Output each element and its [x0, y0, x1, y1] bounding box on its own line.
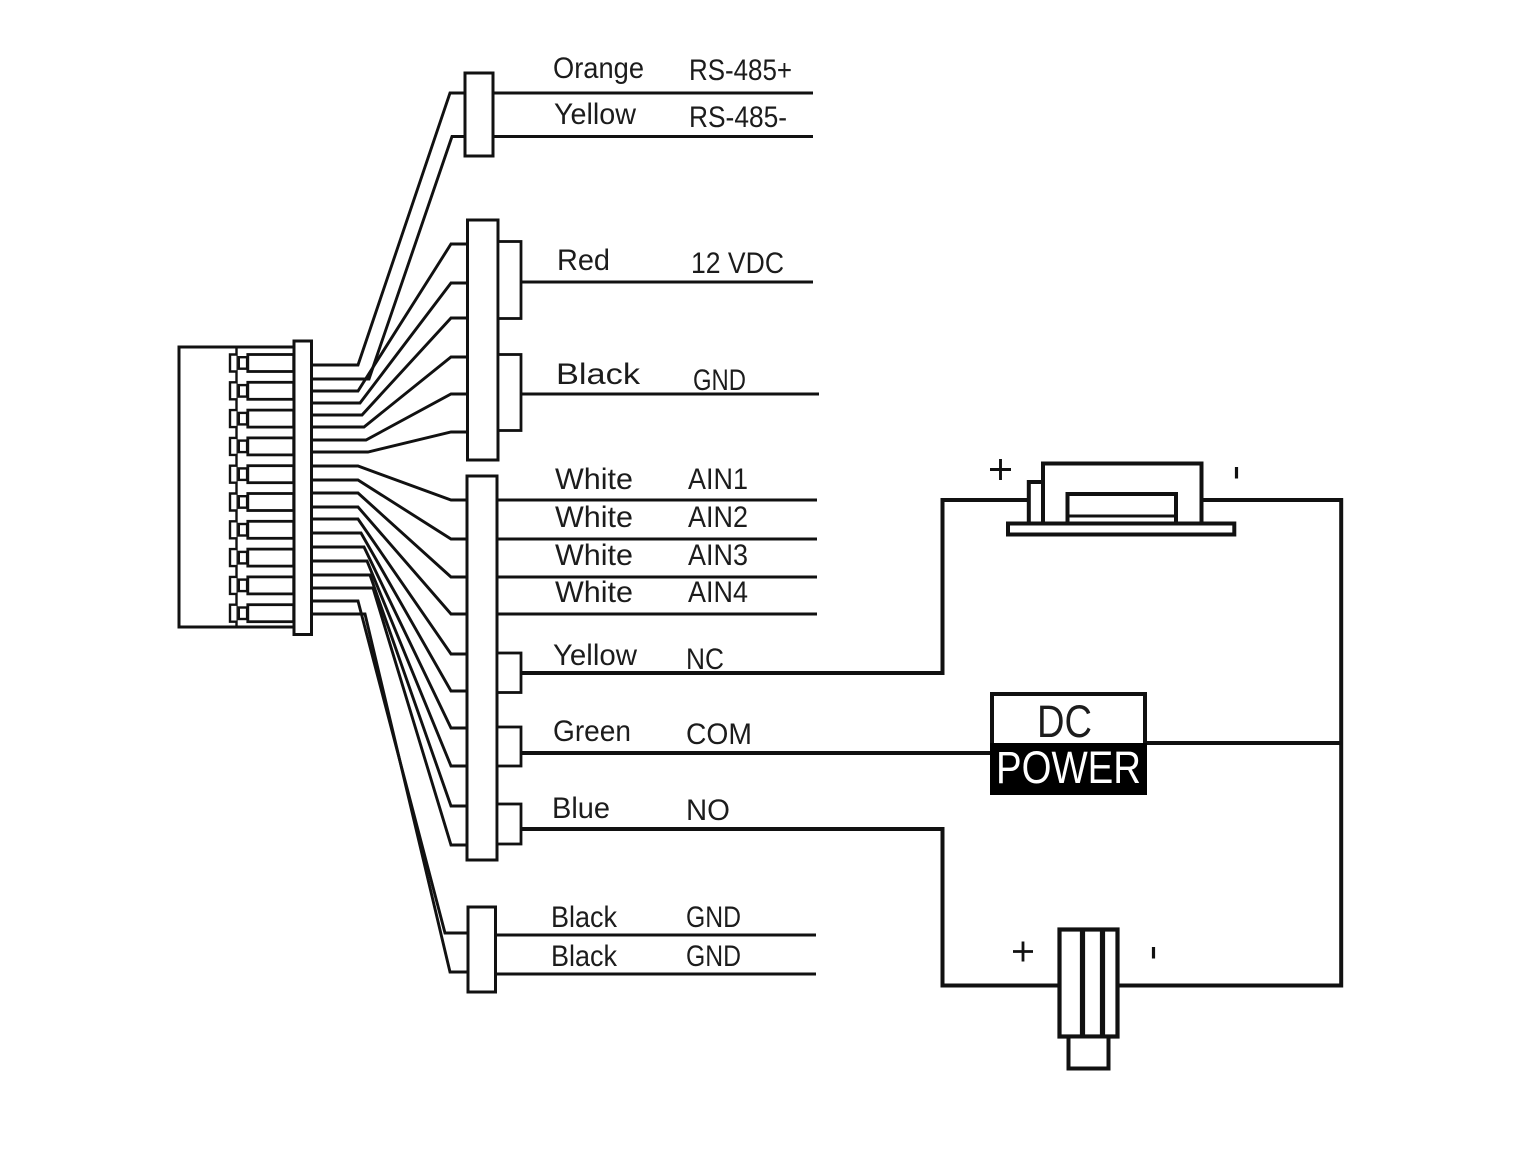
svg-text:12 VDC: 12 VDC	[691, 247, 784, 280]
DC power black half	[990, 743, 1147, 795]
wire connector pin fan to NC bundle a	[311, 519, 467, 654]
svg-text:COM: COM	[686, 718, 752, 751]
connector pin blade 9	[248, 577, 294, 594]
connector tooth pin 9	[230, 577, 237, 594]
cable sheath bar ground	[468, 907, 496, 992]
connector tooth pin 6	[230, 494, 237, 511]
connector contact square pin 3	[239, 413, 247, 425]
wire connector pin fan to 12VDC bundle c	[311, 318, 468, 415]
svg-text:AIN2: AIN2	[688, 501, 748, 534]
connector tooth pin 1	[230, 355, 237, 372]
electric lock inner latch line	[1068, 515, 1177, 518]
electric lock inner block	[1068, 494, 1177, 524]
svg-text:White: White	[555, 501, 633, 534]
wire connector pin fan to NO bundle b	[311, 588, 467, 845]
connector J1 comb edge	[235, 347, 237, 627]
connector J1 body	[179, 347, 294, 627]
plug terminal green COM	[497, 727, 521, 766]
svg-text:AIN1: AIN1	[688, 463, 748, 496]
connector tooth pin 7	[230, 521, 237, 538]
wire NC to lock positive	[521, 500, 1030, 673]
wire connector pin fan to 12VDC bundle b (red)	[311, 283, 468, 403]
connector contact square pin 4	[239, 441, 247, 453]
plug terminal yellow NC	[497, 653, 521, 693]
connector contact square pin 6	[239, 496, 247, 508]
svg-text:White: White	[555, 463, 633, 496]
connector tooth pin 5	[230, 466, 237, 483]
connector pin blade 5	[248, 466, 294, 483]
wire connector pin fan to COM bundle a	[311, 547, 467, 728]
cable sheath bar RS-485	[465, 73, 493, 156]
connector contact square pin 2	[239, 385, 247, 397]
svg-text:RS-485-: RS-485-	[689, 101, 787, 134]
connector pin blade 8	[248, 549, 294, 566]
connector tooth pin 2	[230, 382, 237, 399]
svg-text:Yellow: Yellow	[554, 98, 636, 131]
connector tooth pin 10	[230, 605, 237, 622]
svg-text:White: White	[555, 539, 633, 572]
svg-text:Green: Green	[553, 715, 631, 748]
wire 12 VDC	[521, 281, 813, 284]
cable sheath bar power	[468, 220, 499, 460]
wire AIN1	[497, 499, 817, 502]
wire NO to exit button positive	[521, 829, 1060, 986]
svg-text:NO: NO	[686, 794, 730, 827]
wire GND	[521, 393, 819, 396]
wire RS-485-	[493, 135, 813, 138]
wire connector pin fan to COM bundle b	[311, 561, 467, 766]
connector pin blade 4	[248, 438, 294, 455]
wire connector pin fan to AIN4 (white)	[311, 507, 467, 614]
wire DC power right to trunk	[1145, 741, 1341, 745]
connector contact square pin 10	[239, 608, 247, 620]
electric lock minus tick	[1235, 467, 1238, 479]
wire connector pin fan to AIN2 (white)	[311, 480, 467, 539]
wire connector pin fan to GND (black) upper	[311, 601, 468, 933]
connector contact square pin 7	[239, 524, 247, 536]
svg-text:POWER: POWER	[996, 742, 1141, 793]
wire connector pin fan to NC bundle b	[311, 533, 467, 691]
wire COM to DC power	[521, 751, 992, 755]
exit button inner line right	[1100, 930, 1105, 1037]
svg-text:Black: Black	[551, 901, 618, 934]
wire AIN3	[497, 576, 817, 579]
plug terminal black GND	[498, 355, 521, 431]
svg-text:GND: GND	[693, 364, 746, 397]
svg-text:Orange: Orange	[553, 52, 644, 85]
connector tooth pin 8	[230, 549, 237, 566]
connector pin blade 2	[248, 382, 294, 399]
connector pin blade 10	[248, 605, 294, 622]
wire connector pin fan to 12VDC bundle a	[311, 244, 468, 391]
svg-text:RS-485+: RS-485+	[689, 54, 792, 87]
connector tooth pin 4	[230, 438, 237, 455]
exit button body	[1060, 930, 1118, 1037]
wire connector pin fan to GND bundle c	[311, 432, 468, 452]
electric lock base plate	[1008, 524, 1234, 535]
svg-text:White: White	[555, 576, 633, 609]
wire connector pin fan to AIN1 (white)	[311, 466, 467, 500]
plug terminal blue NO	[497, 804, 521, 844]
wire connector pin fan to AIN3 (white)	[311, 493, 467, 577]
svg-text:Yellow: Yellow	[553, 639, 637, 672]
connector tooth pin 3	[230, 410, 237, 427]
wire connector pin fan to RS-485+ (orange)	[311, 93, 465, 365]
wire RS-485+	[493, 92, 813, 95]
svg-text:GND: GND	[686, 901, 741, 934]
svg-text:Black: Black	[556, 358, 641, 391]
connector pin blade 1	[248, 355, 294, 372]
svg-text:Blue: Blue	[552, 792, 610, 825]
connector contact square pin 1	[239, 357, 247, 369]
connector contact square pin 5	[239, 468, 247, 480]
connector pin blade 3	[248, 410, 294, 427]
wire lock negative to trunk to button negative	[1118, 500, 1342, 986]
wire connector pin fan to GND (black) lower	[311, 614, 468, 972]
wire AIN4	[497, 613, 817, 616]
cable sheath bar signal	[467, 476, 497, 860]
svg-text:DC: DC	[1037, 696, 1092, 747]
wire connector pin fan to NO bundle a	[311, 575, 467, 806]
electric lock left tab	[1029, 482, 1043, 524]
svg-text:AIN3: AIN3	[688, 539, 748, 572]
electric lock main body	[1043, 464, 1202, 524]
exit button inner line left	[1080, 930, 1085, 1037]
exit button minus tick	[1152, 947, 1155, 959]
wire GND upper	[495, 934, 816, 937]
wire GND lower	[495, 973, 816, 976]
plug terminal red 12VDC	[498, 242, 521, 319]
svg-text:AIN4: AIN4	[688, 576, 748, 609]
DC power supply box	[992, 694, 1145, 793]
exit button stem	[1069, 1037, 1109, 1069]
wire connector pin fan to GND bundle b (black)	[311, 394, 468, 440]
electric lock plus sign	[990, 459, 1011, 480]
connector contact square pin 9	[239, 580, 247, 592]
wire connector pin fan to RS-485- (yellow)	[311, 137, 465, 380]
connector pin blade 6	[248, 494, 294, 511]
svg-text:Black: Black	[551, 940, 618, 973]
connector contact square pin 8	[239, 552, 247, 564]
svg-text:Red: Red	[557, 244, 610, 277]
connector J1 header bar	[294, 341, 312, 635]
exit button plus sign	[1013, 942, 1033, 962]
connector pin blade 7	[248, 521, 294, 538]
wire AIN2	[497, 538, 817, 541]
svg-text:GND: GND	[686, 940, 741, 973]
wire connector pin fan to GND bundle a	[311, 357, 468, 427]
